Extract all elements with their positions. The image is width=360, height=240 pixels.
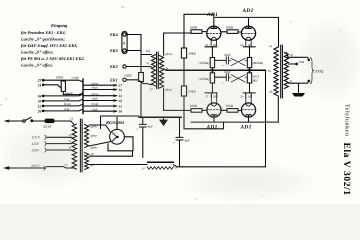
wire cathode column V4 lower bbox=[249, 83, 251, 93]
svg-text:Lasche „S“ offen.: Lasche „S“ offen. bbox=[20, 63, 53, 68]
svg-text:23: 23 bbox=[37, 79, 42, 83]
wire secondary bottom to lower grid rail bbox=[164, 88, 191, 110]
output tap top bbox=[286, 53, 308, 60]
wire grid rail between tubes bbox=[221, 31, 227, 33]
svg-text:26: 26 bbox=[37, 109, 42, 113]
wire bottom anode rail bbox=[191, 117, 278, 122]
resistor 50k lower bbox=[181, 86, 186, 96]
wire junction to transformer primary top bbox=[141, 54, 151, 56]
wire cathode column V2 upper bbox=[249, 47, 251, 58]
wire resistor top to cable bbox=[63, 80, 83, 82]
svg-text:35: 35 bbox=[37, 99, 42, 103]
scan smudges bbox=[0, 6, 341, 200]
svg-text:EK3: EK3 bbox=[109, 48, 118, 53]
power transformer core bbox=[80, 119, 82, 172]
wire secondary top to upper grid rail bbox=[164, 33, 191, 56]
tube AD1 V1 (top left) bbox=[207, 26, 221, 40]
output tap 30 ohm bbox=[288, 63, 296, 65]
input transformer secondary winding bbox=[159, 56, 163, 88]
svg-text:sw/gb: sw/gb bbox=[72, 76, 80, 80]
output transformer core bbox=[281, 45, 283, 98]
wire chassis line at rectifier box bbox=[101, 116, 140, 129]
wire column V1 through bus bbox=[211, 68, 213, 73]
svg-text:p): p) bbox=[142, 167, 145, 170]
power transformer filament secondary bbox=[85, 153, 89, 170]
svg-text:für Pentoden EK1 - EK4,: für Pentoden EK1 - EK4, bbox=[21, 30, 66, 35]
wire cathode column V1 upper bbox=[211, 47, 213, 58]
svg-text:28: 28 bbox=[248, 43, 252, 47]
wire rectifier filament loop bbox=[108, 137, 133, 151]
B+ bus (thick) bbox=[139, 116, 181, 118]
wire column V2 through bus bbox=[249, 68, 251, 73]
tube AD1 V2 (top right) bbox=[241, 26, 255, 40]
wire filament tap to hum resistor bbox=[89, 164, 147, 166]
wire crossing X lower bbox=[229, 75, 248, 82]
tube AD1 V3 (bottom left) bbox=[207, 103, 221, 117]
wire crossing X upper bbox=[229, 58, 248, 65]
input transformer core bbox=[157, 52, 159, 89]
svg-text:Lasche „S“ geschlossen;: Lasche „S“ geschlossen; bbox=[20, 36, 65, 41]
svg-text:b): b) bbox=[268, 69, 271, 73]
tube AD1 V4 (bottom right) bbox=[241, 103, 255, 117]
svg-text:gb: gb bbox=[270, 90, 274, 94]
wire bottom return line bbox=[182, 166, 265, 168]
wire HT winding to rectifier anode top bbox=[89, 125, 111, 132]
output tap bottom bbox=[288, 82, 308, 83]
wire EK2 to primary mid tap bbox=[126, 66, 151, 68]
svg-text:gb/br: gb/br bbox=[91, 125, 99, 129]
resistor (883k) upper bbox=[247, 58, 251, 68]
svg-text:br/gn: br/gn bbox=[64, 102, 71, 106]
svg-text:für DAF-Empf. HV1 EK1-EK3,: für DAF-Empf. HV1 EK1-EK3, bbox=[21, 43, 77, 48]
power transformer HT secondary bbox=[85, 125, 89, 148]
wire EK3 to junction bbox=[126, 50, 141, 52]
wire filament tap to rectifier cathode bbox=[89, 151, 133, 156]
svg-text:d): d) bbox=[290, 53, 293, 57]
wire junction vertical EK4-EK3 down to bus bbox=[140, 35, 142, 118]
svg-text:26: 26 bbox=[213, 43, 217, 47]
svg-text:Ela V 302/1: Ela V 302/1 bbox=[341, 143, 352, 196]
wire resistor bottom to cable bbox=[63, 91, 83, 94]
svg-text:200Ω: 200Ω bbox=[226, 26, 234, 30]
svg-text:b): b) bbox=[290, 79, 293, 83]
wire rail up to output transformer primary bottom bbox=[277, 96, 279, 122]
svg-text:rt/gr: rt/gr bbox=[64, 97, 70, 101]
svg-text:200Ω: 200Ω bbox=[190, 26, 198, 30]
input transformer primary winding bbox=[151, 55, 155, 87]
wire secondary centre tap to bias bus bbox=[164, 69, 166, 71]
wire bias bus down to bottom line bbox=[265, 70, 267, 167]
output transformer secondary winding bbox=[284, 53, 288, 89]
wire top anode rail right to output transformer bbox=[215, 17, 278, 47]
wire mains line with arrow bbox=[6, 120, 23, 122]
resistor 50k upper bbox=[181, 48, 186, 58]
svg-text:a): a) bbox=[269, 44, 272, 48]
wire terminal 11 lead bbox=[44, 85, 62, 89]
resistor hum balance (wirewound) bbox=[148, 161, 174, 163]
svg-text:rt/gr: rt/gr bbox=[64, 107, 70, 111]
output transformer primary winding bbox=[274, 47, 278, 96]
cable trunk bbox=[82, 79, 84, 114]
capacitor 4uF second filter bbox=[176, 117, 183, 167]
svg-text:(883kΩ): (883kΩ) bbox=[253, 61, 264, 65]
wire lower grid rail between tubes bbox=[221, 109, 227, 111]
svg-text:AD1: AD1 bbox=[242, 8, 254, 14]
svg-text:Eingang: Eingang bbox=[50, 23, 68, 28]
svg-text:rt/gr: rt/gr bbox=[64, 92, 70, 96]
svg-text:34: 34 bbox=[37, 94, 42, 98]
wire rectifier output up to B+ bus bbox=[116, 117, 118, 129]
svg-text:1): 1) bbox=[70, 117, 73, 121]
brace 200 ohm output bbox=[310, 58, 313, 84]
bias bus (thick centre rail) bbox=[166, 69, 266, 71]
svg-text:11: 11 bbox=[38, 83, 42, 87]
ground at output secondary bbox=[298, 83, 300, 93]
svg-text:100Ω: 100Ω bbox=[56, 76, 64, 80]
svg-text:für PE 804 u. 2 NEU 804 EK1-EK: für PE 804 u. 2 NEU 804 EK1-EK2, bbox=[21, 56, 85, 61]
svg-text:20: 20 bbox=[240, 43, 244, 47]
resistor 1(0,5)k lower bbox=[247, 73, 251, 83]
svg-text:Lasche „S“ offen;: Lasche „S“ offen; bbox=[20, 49, 54, 54]
svg-text:12: 12 bbox=[38, 104, 42, 108]
ground on B+ bus bbox=[163, 117, 165, 120]
wire EK4 to junction bbox=[126, 34, 141, 36]
svg-text:AD1: AD1 bbox=[206, 12, 218, 18]
link strap S (Lasche S) across EK3/EK4 bbox=[122, 31, 127, 53]
svg-text:27: 27 bbox=[205, 43, 209, 47]
wire top anode rail left bbox=[184, 14, 214, 26]
rectifier tube RGN4004 bbox=[110, 129, 125, 144]
mains switch bbox=[23, 120, 25, 122]
svg-text:Telefunken: Telefunken bbox=[344, 104, 351, 136]
wire cathode column V3 lower bbox=[211, 83, 213, 93]
power transformer primary winding bbox=[72, 124, 76, 169]
wire terminal 23 lead bbox=[44, 79, 63, 81]
wire HT winding to rectifier anode bottom bbox=[89, 142, 111, 146]
capacitor 4uF first filter bbox=[139, 117, 146, 157]
fuse 2(1)A bbox=[45, 119, 54, 122]
feedback column wire bbox=[184, 14, 224, 129]
svg-text:EK4: EK4 bbox=[109, 32, 118, 37]
